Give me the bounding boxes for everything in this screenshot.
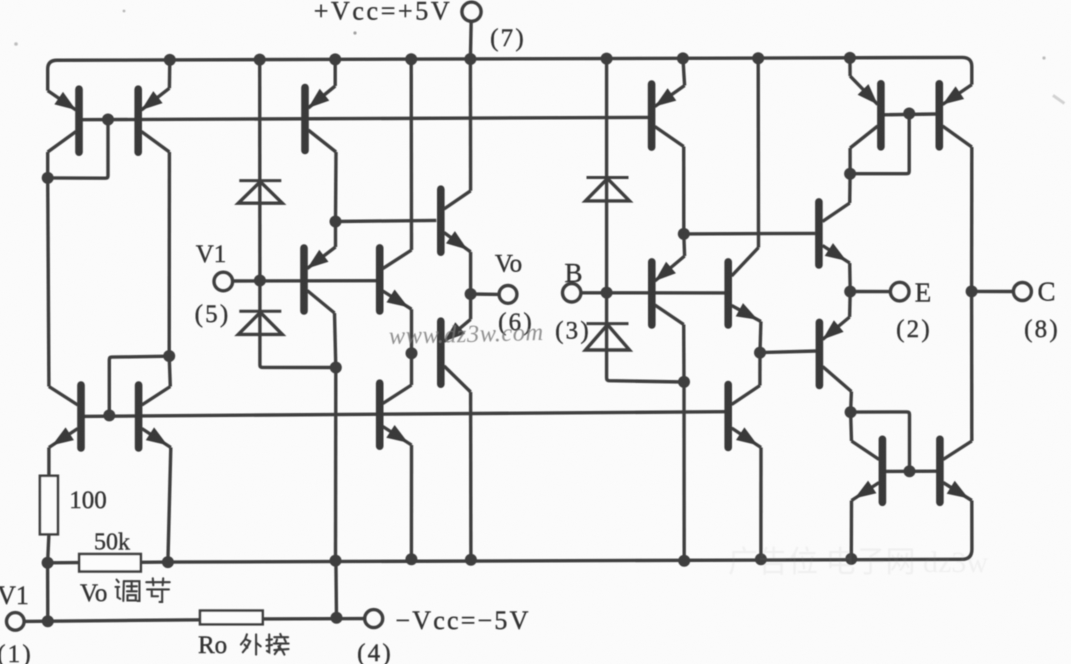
wire long base bus y414	[78, 412, 725, 417]
transistor Q10	[652, 256, 685, 325]
wire bottom-right mirror base	[885, 470, 936, 474]
transistor Q16	[939, 84, 972, 147]
junction rail-bottom x411	[405, 553, 417, 565]
terminal E pin2	[890, 282, 909, 301]
label wai of Ro-waijie	[241, 634, 261, 654]
wire Q12 collector up	[758, 353, 761, 386]
wire +Vcc top rail	[48, 57, 972, 90]
wire V1 node through D2 to junction	[260, 281, 336, 368]
junction rail x411	[405, 53, 417, 65]
junction TR mirror base	[903, 108, 915, 120]
transistor Q14	[819, 317, 851, 392]
transistor Q3	[305, 86, 336, 152]
junction Ro line x336	[331, 612, 343, 624]
junction base bus x108	[102, 114, 114, 126]
wire rail stub x170	[168, 60, 172, 89]
wire base bus y118	[79, 117, 649, 119]
terminal V1 pin1	[7, 613, 25, 631]
wire R1 to bottom rail	[48, 534, 49, 563]
wire node412 to Q17 collector	[849, 412, 853, 441]
wire Q14 collector down	[849, 392, 853, 413]
wire Q3 collector down	[334, 152, 338, 222]
wire V1 base bus	[233, 279, 377, 283]
resistor R3 Ro	[200, 611, 263, 625]
terminal B pin3	[563, 284, 581, 302]
transistor Q20	[139, 385, 171, 448]
wire x684 junction to bottom rail	[682, 382, 686, 561]
junction node A	[42, 172, 54, 184]
wire node233 to Q10 emitter	[682, 234, 686, 256]
transistor Q5	[380, 248, 412, 311]
wire Q10 collector down	[682, 325, 686, 382]
junction node x684 y234	[678, 228, 690, 240]
junction node x411 y353	[406, 347, 418, 359]
wire Q9 emitter stub	[683, 58, 685, 86]
wire mirror base jog x909 top	[850, 114, 909, 174]
junction B node	[601, 287, 613, 299]
wire bus y352 to Q14 base	[760, 351, 817, 353]
wire Q3 emitter stub	[334, 59, 337, 86]
junction input line x48	[42, 615, 54, 627]
wire Q8 collector up	[410, 353, 413, 385]
transistor Q12	[728, 385, 761, 448]
wire Q7 collector to rail	[469, 392, 473, 560]
speck	[1042, 56, 1045, 59]
wire E node to Q14 emitter	[848, 292, 852, 318]
wire left column x48 upper	[46, 152, 49, 178]
wire node174 to Q13 collector	[848, 174, 852, 203]
wire Vo to Q7 emitter	[469, 294, 472, 319]
junction Vo node	[465, 288, 477, 300]
wire Q13 emitter to E node	[848, 263, 852, 292]
wire Q20 emitter to rail	[168, 448, 171, 563]
label jie of Ro-waijie	[266, 634, 288, 655]
wire C node to Q18 collector	[970, 291, 974, 441]
junction rail-bottom x684	[678, 555, 690, 567]
junction node x851 y412	[845, 406, 857, 418]
wire Q6 emitter to Vo	[469, 252, 472, 294]
wire Q15 emitter stub	[848, 56, 852, 76]
wire Q16 collector to C node	[970, 147, 974, 291]
wire Ro to -Vcc terminal	[263, 617, 366, 621]
wire x169 mirror collector long	[167, 152, 171, 356]
wire x470 rail to Q6 collector	[469, 59, 473, 191]
label jie of Vo-tiaojie	[146, 578, 169, 602]
junction node x169 y356	[163, 350, 175, 362]
transistor Q2	[138, 88, 169, 152]
speck	[353, 31, 356, 34]
wire bus y221 to Q6 base	[336, 220, 437, 221]
wire left column x48 long	[48, 178, 49, 387]
resistor R1 100	[40, 476, 58, 535]
junction node x760 y352	[754, 347, 766, 359]
terminal C pin8	[1013, 283, 1031, 301]
wire node356 to Q20 collector	[169, 356, 170, 387]
junction node x684 y382	[678, 376, 690, 388]
wire Q5 emitter down	[410, 309, 413, 353]
wire Q9 collector down	[682, 147, 685, 234]
transistor Q19	[49, 385, 81, 448]
wire x336 junction to bottom rail	[334, 368, 338, 561]
junction V1 node	[254, 275, 266, 287]
wire Q12 emitter to rail	[759, 448, 762, 560]
transistor Q6	[441, 189, 471, 252]
wire x411 rail to Q5 collector	[410, 59, 414, 250]
wire diode column D3	[605, 59, 608, 293]
wire mirror base jog x909 bottom	[851, 412, 910, 471]
wire diode column D1	[258, 59, 262, 280]
junction rail-bottom x335	[330, 555, 342, 567]
transistor Q13	[819, 202, 850, 265]
terminal +Vcc pin7	[462, 2, 481, 21]
diode D3	[586, 178, 630, 201]
junction rail-bottom x168	[162, 556, 174, 568]
transistor Q11	[728, 248, 761, 325]
wire Q15 collector down	[848, 148, 851, 174]
transistor Q8	[380, 383, 412, 446]
junction rail-bottom x761	[755, 553, 767, 565]
diode D1	[238, 181, 282, 204]
wire x48 rail to input line	[46, 563, 50, 621]
junction rail-bottom x471	[465, 554, 477, 566]
transistor Q18	[940, 439, 972, 502]
wire diode-connect loop top-left	[48, 120, 108, 179]
terminal Vo pin6	[499, 286, 517, 304]
terminal -Vcc pin4	[365, 610, 383, 628]
wire Vo node to terminal	[471, 292, 500, 296]
diode D4	[586, 324, 630, 350]
junction rail-bottom x851	[845, 553, 857, 565]
transistor Q4	[304, 247, 336, 313]
resistor R2 50k	[79, 554, 141, 572]
wire top-right mirror base	[884, 112, 936, 116]
wire bottom-left mirror base jog	[109, 356, 169, 415]
transistor Q7	[441, 319, 471, 392]
junction C node	[966, 285, 978, 297]
wire C node to terminal	[972, 290, 1014, 294]
transistor Q15	[850, 76, 881, 148]
junction node x336 y367	[330, 362, 342, 374]
label tiao of Vo-tiaojie	[116, 580, 140, 601]
speck	[1052, 94, 1065, 104]
wire Vcc terminal stub	[469, 21, 473, 59]
junction rail x170	[164, 54, 176, 66]
junction rail-bottom x48	[42, 557, 54, 569]
transistor Q17	[852, 439, 883, 502]
junction E node	[844, 286, 856, 298]
junction rail x335	[329, 53, 341, 65]
wire Q11 emitter down	[758, 322, 762, 353]
junction follower base	[330, 216, 342, 228]
diode D2	[238, 311, 282, 334]
wire B base bus	[581, 291, 725, 295]
wire bottom rail	[48, 501, 972, 563]
wire Q17 emitter to rail	[850, 501, 854, 559]
junction rail x683	[677, 52, 689, 64]
speck	[14, 42, 18, 46]
transistor Q1	[48, 89, 79, 152]
junction BR mirror base	[904, 465, 916, 477]
wire V1 input line to Ro	[24, 620, 200, 622]
wire Q4 collector down	[335, 313, 336, 368]
junction rail x470	[464, 53, 476, 65]
wire x759 rail to Q11 collector	[757, 57, 761, 247]
junction node x850 y174	[844, 168, 856, 180]
wire Q4 emitter stub	[334, 222, 337, 248]
wire Q19 emitter to R1	[47, 448, 50, 476]
junction rail x260	[254, 54, 266, 66]
wire bus y233 to Q13 base	[684, 232, 816, 236]
junction rail x850	[844, 52, 856, 64]
wire B node through D4 to junction	[607, 293, 684, 382]
speck	[123, 10, 126, 13]
junction rail x607	[601, 53, 613, 65]
terminal V1 pin5	[214, 272, 233, 291]
junction BL mirror base	[103, 409, 115, 421]
transistor Q9	[652, 84, 685, 147]
wire Q8 emitter to rail	[410, 445, 414, 559]
wire E node to terminal	[850, 290, 891, 294]
junction rail x758	[752, 52, 764, 64]
wire x336 rail to Ro line	[334, 561, 338, 618]
